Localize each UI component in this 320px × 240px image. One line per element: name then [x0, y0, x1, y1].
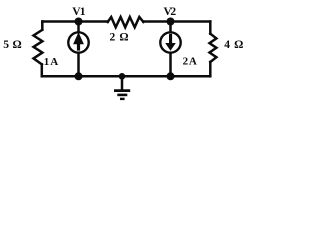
- node V1 dot: [75, 18, 83, 26]
- node V2 dot: [167, 18, 175, 26]
- current source 1A circle: [68, 32, 88, 52]
- junction dot below source 2A: [167, 72, 175, 80]
- current source 2A arrow: [165, 34, 176, 51]
- wire V2 node to source 2A: [169, 22, 172, 32]
- current source 2A circle: [160, 32, 180, 52]
- wire right branch top stub: [209, 22, 212, 34]
- wire top-right segment: [143, 20, 210, 23]
- wire source 2A to bottom: [169, 53, 172, 76]
- svg-text:1A: 1A: [44, 56, 59, 68]
- junction dot below source 1A: [75, 72, 83, 80]
- resistor 4 ohm: [210, 34, 217, 62]
- wire top-left segment: [42, 20, 107, 23]
- svg-text:4 Ω: 4 Ω: [224, 39, 243, 51]
- ground bars: [114, 91, 130, 99]
- resistor 2 ohm: [108, 17, 144, 27]
- wire bottom: [42, 75, 210, 78]
- svg-text:2A: 2A: [183, 56, 198, 68]
- resistor 5 ohm: [34, 30, 43, 65]
- wire V1 node to source 1A: [77, 22, 80, 32]
- svg-text:5 Ω: 5 Ω: [3, 39, 21, 51]
- ground stem: [121, 76, 124, 89]
- svg-text:2 Ω: 2 Ω: [110, 32, 129, 44]
- svg-text:V2: V2: [164, 6, 177, 18]
- wire left branch bottom stub: [41, 64, 44, 76]
- junction dot at ground: [119, 73, 126, 80]
- wire right branch bottom stub: [209, 62, 212, 76]
- current source 1A arrow: [73, 32, 84, 50]
- wire source 1A to bottom: [77, 53, 80, 76]
- svg-text:V1: V1: [72, 6, 86, 18]
- wire left branch top stub: [41, 22, 44, 30]
